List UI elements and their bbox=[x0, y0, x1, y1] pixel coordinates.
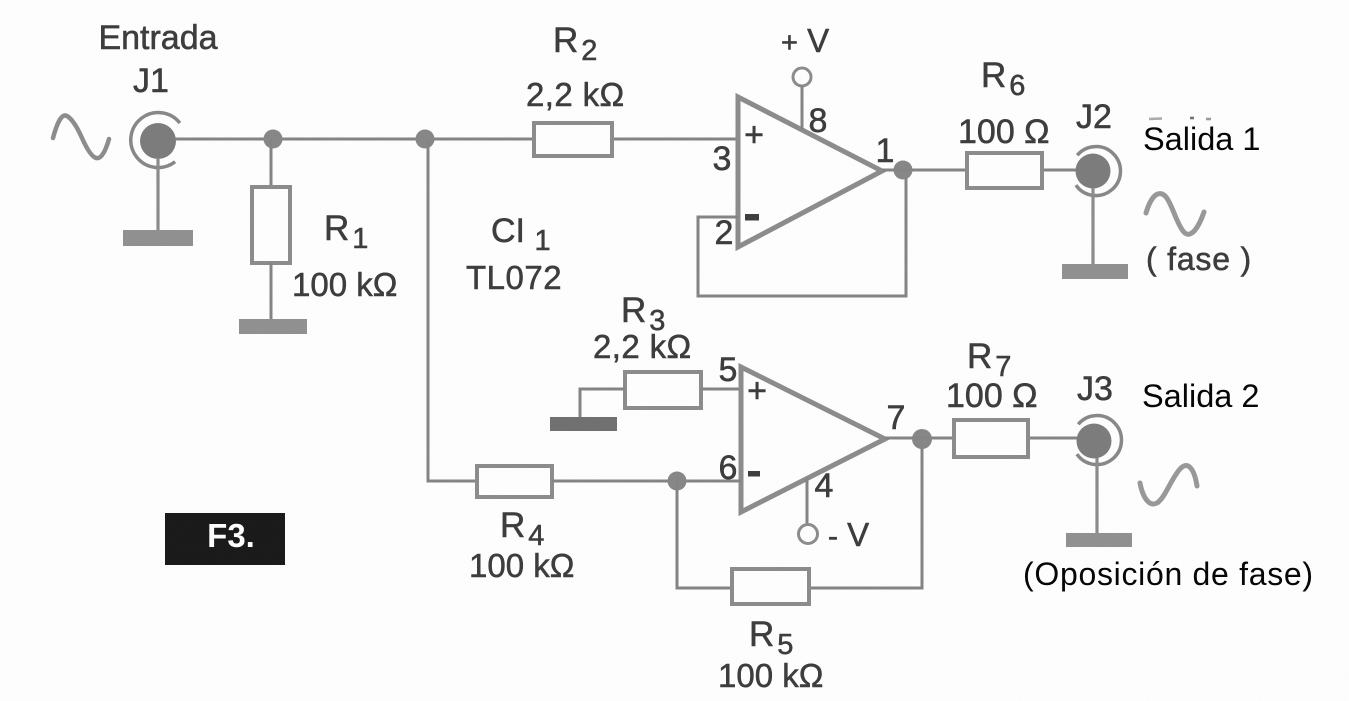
node output 2 bbox=[912, 429, 932, 449]
op-amp U1a minus sign bbox=[745, 214, 759, 221]
connector J2 bbox=[1076, 147, 1121, 196]
connector J1 bbox=[131, 113, 180, 168]
op-amp U1b bbox=[741, 367, 885, 512]
output sine 1 bbox=[1146, 194, 1204, 235]
resistor R1 bbox=[252, 139, 290, 322]
feedback wire U1b bbox=[677, 439, 922, 588]
figure tag F3 bbox=[165, 513, 285, 565]
resistor R3 bbox=[625, 372, 701, 408]
node junction C bbox=[668, 472, 687, 491]
wire R3 left to ground bbox=[580, 389, 625, 420]
resistor R6 bbox=[967, 153, 1042, 188]
+V terminal bbox=[793, 68, 811, 130]
wire main input bbox=[175, 138, 738, 141]
-V terminal bbox=[799, 479, 818, 544]
wire output2 to J3 bbox=[885, 437, 1079, 440]
ground R1 bbox=[239, 319, 307, 334]
feedback wire U1a pin2 to pin1 bbox=[698, 171, 906, 296]
wire R4 to pin6 bbox=[552, 480, 741, 483]
wire from node B down to R4 bbox=[428, 139, 477, 481]
resistor R2 bbox=[534, 123, 612, 156]
output sine 2 inverted bbox=[1140, 466, 1197, 504]
op-amp U1b minus sign bbox=[748, 471, 760, 477]
wire R3 right to op-amp pin5 bbox=[701, 388, 741, 391]
input sine symbol bbox=[53, 115, 109, 158]
ground R3 bbox=[550, 417, 617, 431]
resistor R7 bbox=[954, 420, 1028, 457]
faint erase marks bbox=[1149, 118, 1211, 119]
wire output1 to J2 bbox=[882, 169, 1078, 172]
resistor R5 bbox=[732, 569, 809, 604]
ground J3 bbox=[1066, 458, 1132, 547]
node junction B bbox=[416, 130, 435, 149]
op-amp U1a bbox=[738, 97, 882, 247]
ground J1 bbox=[123, 158, 193, 246]
connector J3 bbox=[1077, 416, 1122, 465]
resistor R4 bbox=[477, 466, 552, 497]
ground J2 bbox=[1062, 188, 1128, 279]
node junction A bbox=[264, 130, 283, 149]
node output 1 bbox=[894, 161, 913, 180]
